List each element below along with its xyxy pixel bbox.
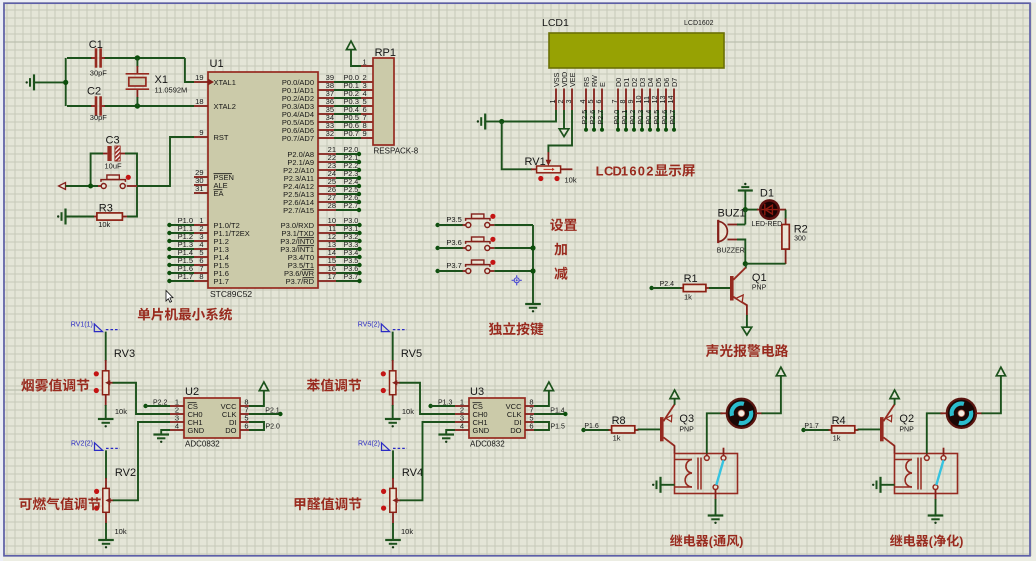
svg-text:P2.7: P2.7 xyxy=(344,201,359,210)
svg-text:P2.7: P2.7 xyxy=(596,110,605,125)
svg-text:P1.6: P1.6 xyxy=(584,423,599,430)
svg-text:1k: 1k xyxy=(684,293,692,302)
svg-text:ADC0832: ADC0832 xyxy=(185,440,220,449)
svg-text:DO: DO xyxy=(510,426,521,435)
svg-text:11.0592M: 11.0592M xyxy=(155,86,188,95)
svg-text:BUZ1: BUZ1 xyxy=(718,208,746,220)
svg-text:BUZZER: BUZZER xyxy=(717,248,745,255)
svg-text:P0.7/AD7: P0.7/AD7 xyxy=(282,134,314,143)
svg-text:P1.7: P1.7 xyxy=(804,423,819,430)
svg-text:RV4: RV4 xyxy=(402,467,423,479)
svg-text:10k: 10k xyxy=(565,176,577,185)
svg-text:STC89C52: STC89C52 xyxy=(210,289,252,299)
svg-text:D1: D1 xyxy=(760,188,774,200)
svg-text:P0.7: P0.7 xyxy=(668,110,677,125)
svg-text:EA: EA xyxy=(214,189,224,198)
svg-text:P2.4: P2.4 xyxy=(660,281,675,288)
svg-text:8: 8 xyxy=(199,272,203,281)
svg-text:LCD1602: LCD1602 xyxy=(684,20,714,27)
svg-text:L: L xyxy=(596,163,604,178)
svg-text:6: 6 xyxy=(244,422,248,431)
svg-text:C2: C2 xyxy=(87,86,101,98)
svg-text:32: 32 xyxy=(326,129,334,138)
svg-text:P2.0: P2.0 xyxy=(266,423,281,430)
svg-text:1: 1 xyxy=(363,58,367,67)
svg-text:10k: 10k xyxy=(115,527,127,536)
svg-text:RP1: RP1 xyxy=(375,47,396,59)
svg-text:XTAL1: XTAL1 xyxy=(214,78,236,87)
svg-text:9: 9 xyxy=(363,129,367,138)
svg-text:GND: GND xyxy=(188,426,205,435)
svg-text:10k: 10k xyxy=(115,407,127,416)
svg-text:300: 300 xyxy=(794,236,806,243)
svg-text:RV1(1): RV1(1) xyxy=(71,322,93,329)
svg-text:GND: GND xyxy=(473,426,490,435)
svg-text:1k: 1k xyxy=(833,434,841,443)
svg-text:Q2: Q2 xyxy=(899,413,914,425)
svg-text:R1: R1 xyxy=(684,273,698,285)
svg-text:18: 18 xyxy=(195,97,203,106)
svg-text:D7: D7 xyxy=(670,78,679,87)
svg-text:RV5: RV5 xyxy=(401,348,422,360)
svg-text:P1.4: P1.4 xyxy=(550,407,565,414)
svg-text:6: 6 xyxy=(529,422,533,431)
svg-text:4: 4 xyxy=(175,422,179,431)
svg-text:C1: C1 xyxy=(89,39,103,51)
svg-text:17: 17 xyxy=(328,272,336,281)
svg-text:30pF: 30pF xyxy=(90,68,108,77)
svg-text:E: E xyxy=(598,82,607,87)
svg-text:30pF: 30pF xyxy=(90,113,108,122)
svg-text:LCD1: LCD1 xyxy=(542,17,569,29)
svg-text:4: 4 xyxy=(460,422,464,431)
svg-text:P3.7: P3.7 xyxy=(344,272,359,281)
svg-text:19: 19 xyxy=(195,73,203,82)
svg-text:VEE: VEE xyxy=(568,72,577,87)
svg-text:RV2(2): RV2(2) xyxy=(71,440,93,447)
svg-text:RV5(2): RV5(2) xyxy=(358,322,380,329)
svg-text:LED-RED: LED-RED xyxy=(752,221,783,228)
svg-text:RV3: RV3 xyxy=(114,348,135,360)
svg-text:1: 1 xyxy=(621,163,628,178)
svg-text:): ) xyxy=(959,535,963,549)
svg-text:PNP: PNP xyxy=(899,426,914,433)
svg-text:RESPACK-8: RESPACK-8 xyxy=(374,147,419,156)
svg-text:R8: R8 xyxy=(612,415,626,427)
svg-text:P2.7/A15: P2.7/A15 xyxy=(283,206,314,215)
svg-text:28: 28 xyxy=(328,201,336,210)
svg-text:9: 9 xyxy=(199,128,203,137)
svg-text:P0.7: P0.7 xyxy=(344,129,359,138)
svg-text:DO: DO xyxy=(225,426,236,435)
svg-text:U3: U3 xyxy=(470,386,484,398)
svg-text:P3.5: P3.5 xyxy=(446,215,461,224)
svg-text:P1.7: P1.7 xyxy=(214,277,229,286)
svg-text:R4: R4 xyxy=(832,415,846,427)
svg-text:10k: 10k xyxy=(402,407,414,416)
svg-text:P1.5: P1.5 xyxy=(551,423,566,430)
svg-text:P3.7/RD: P3.7/RD xyxy=(286,277,315,286)
svg-text:RV2: RV2 xyxy=(115,467,136,479)
svg-text:6: 6 xyxy=(629,163,636,178)
svg-text:PNP: PNP xyxy=(752,285,767,292)
svg-text:P3.7: P3.7 xyxy=(446,261,461,270)
svg-text:R2: R2 xyxy=(794,224,808,236)
svg-text:P3.6: P3.6 xyxy=(446,238,461,247)
svg-text:ADC0832: ADC0832 xyxy=(470,440,505,449)
svg-text:): ) xyxy=(739,535,743,549)
svg-text:P2.1: P2.1 xyxy=(265,407,280,414)
svg-text:RV1: RV1 xyxy=(525,156,546,168)
svg-text:10k: 10k xyxy=(98,220,110,229)
svg-text:C3: C3 xyxy=(106,135,120,147)
svg-text:10k: 10k xyxy=(401,527,413,536)
svg-text:RST: RST xyxy=(214,133,229,142)
svg-text:0: 0 xyxy=(638,163,645,178)
svg-text:Q1: Q1 xyxy=(752,272,767,284)
svg-text:X1: X1 xyxy=(155,74,168,86)
svg-text:31: 31 xyxy=(195,184,203,193)
svg-text:2: 2 xyxy=(646,163,653,178)
svg-text:RV4(2): RV4(2) xyxy=(358,440,380,447)
svg-text:1k: 1k xyxy=(613,434,621,443)
svg-text:PNP: PNP xyxy=(679,426,694,433)
svg-text:Q3: Q3 xyxy=(679,413,694,425)
svg-text:XTAL2: XTAL2 xyxy=(214,102,236,111)
svg-text:U2: U2 xyxy=(185,386,199,398)
svg-text:P1.7: P1.7 xyxy=(178,272,193,281)
svg-text:10uF: 10uF xyxy=(105,162,123,171)
svg-text:U1: U1 xyxy=(210,58,224,70)
